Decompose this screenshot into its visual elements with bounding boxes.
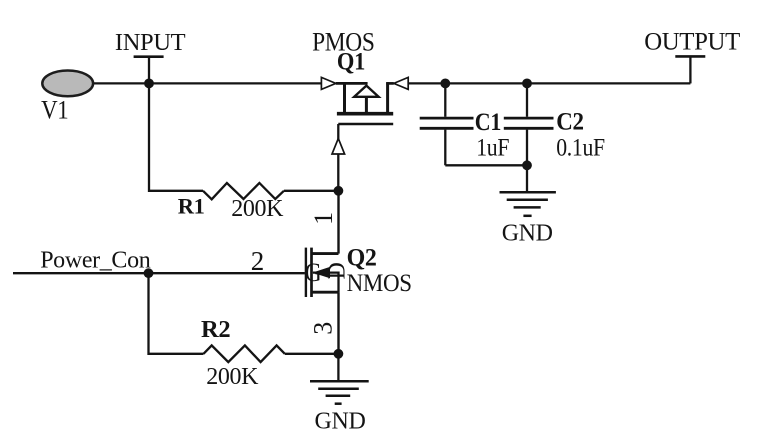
svg-text:G: G xyxy=(305,259,322,287)
svg-text:2: 2 xyxy=(251,246,264,276)
transistor Q2 NMOS xyxy=(251,191,412,354)
svg-text:C2: C2 xyxy=(556,109,583,136)
body diode xyxy=(354,86,378,97)
svg-text:GND: GND xyxy=(315,408,366,434)
svg-text:200K: 200K xyxy=(206,364,259,390)
node junction source/R2/ground xyxy=(334,349,344,359)
svg-text:INPUT: INPUT xyxy=(115,29,186,56)
svg-text:R1: R1 xyxy=(178,193,205,218)
svg-text:R2: R2 xyxy=(201,316,230,343)
gate lead xyxy=(337,124,339,191)
node junction INPUT xyxy=(144,79,154,89)
node junction C2 xyxy=(522,79,532,89)
gate line xyxy=(338,123,393,126)
drain stub xyxy=(312,252,339,255)
svg-text:0.1uF: 0.1uF xyxy=(556,134,605,162)
voltage source V1 xyxy=(41,71,93,125)
svg-text:Power_Con: Power_Con xyxy=(40,247,151,273)
node junction Power_Con xyxy=(144,268,154,278)
capacitor C2 xyxy=(504,83,605,165)
channel bar xyxy=(337,112,393,116)
source arrow xyxy=(321,77,335,89)
body arrow xyxy=(312,267,330,278)
wire Power_Con down to R2 xyxy=(149,273,204,354)
source lead xyxy=(337,292,339,354)
drain leg xyxy=(386,82,389,114)
svg-text:1: 1 xyxy=(309,212,338,225)
svg-text:NMOS: NMOS xyxy=(347,270,412,297)
port OUTPUT xyxy=(644,28,740,83)
source stub xyxy=(312,291,339,294)
svg-text:Q1: Q1 xyxy=(337,48,365,75)
drain arrow xyxy=(394,77,408,89)
svg-text:1uF: 1uF xyxy=(476,134,509,162)
transistor Q1 PMOS xyxy=(312,29,408,191)
resistor R1 xyxy=(178,183,284,222)
wire C1 bottom to C2 bottom xyxy=(445,164,527,166)
svg-text:GND: GND xyxy=(502,221,553,247)
wire R1 to node xyxy=(284,190,339,192)
drain top line xyxy=(386,82,394,85)
body line xyxy=(313,273,339,293)
ground GND capacitors xyxy=(500,165,556,246)
wire INPUT down to R1 xyxy=(149,83,203,190)
ground GND source xyxy=(310,381,369,434)
svg-text:200K: 200K xyxy=(231,196,284,222)
node junction gate/R1/drain xyxy=(334,186,344,196)
svg-text:V1: V1 xyxy=(41,96,68,125)
wire node to ground xyxy=(337,354,339,382)
source leg xyxy=(343,82,346,114)
gate bar xyxy=(305,248,307,297)
gate arrow xyxy=(332,138,345,154)
wire R2 to node xyxy=(285,353,339,355)
wire PMOS drain to OUTPUT xyxy=(408,82,690,84)
svg-text:Q2: Q2 xyxy=(347,244,377,272)
node junction capacitors ground xyxy=(522,160,532,170)
channel bar xyxy=(310,248,313,297)
drain lead xyxy=(337,191,339,254)
source top line xyxy=(336,82,368,85)
svg-text:C1: C1 xyxy=(475,109,501,137)
port INPUT xyxy=(115,29,186,83)
wire V1 to PMOS source arrow xyxy=(94,82,322,84)
net Power_Con wire xyxy=(13,272,305,274)
node junction C1 xyxy=(440,79,450,89)
capacitor C1 xyxy=(420,83,510,165)
resistor R2 xyxy=(201,316,285,390)
svg-text:3: 3 xyxy=(308,322,337,335)
svg-text:OUTPUT: OUTPUT xyxy=(644,28,740,55)
